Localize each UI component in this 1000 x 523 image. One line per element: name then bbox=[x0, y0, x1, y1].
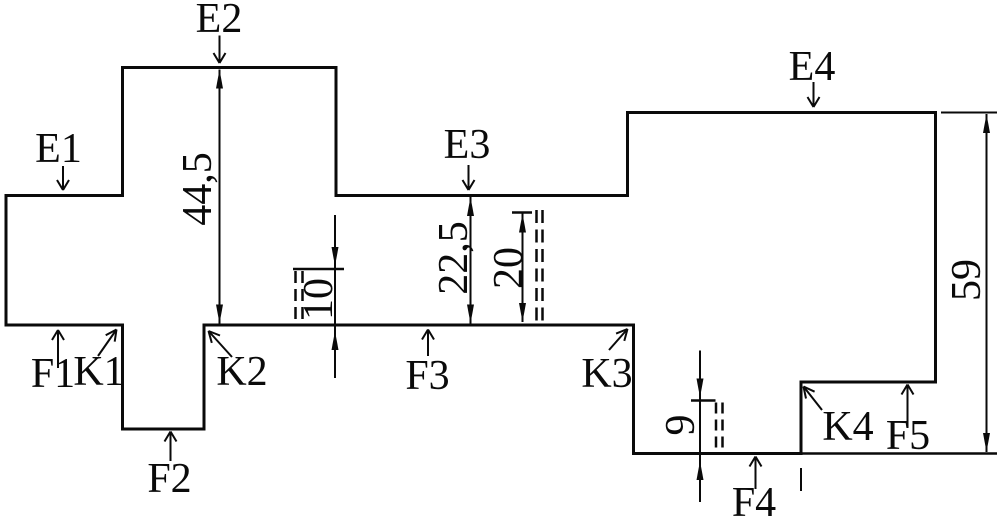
extension line bottom right bbox=[802, 452, 997, 455]
dashed reference lines 9 bbox=[716, 403, 723, 453]
dashed reference lines 10 bbox=[296, 271, 303, 324]
profile outline bbox=[6, 68, 936, 454]
dimension 22,5 bbox=[431, 197, 477, 324]
dimension 44,5 bbox=[175, 70, 223, 324]
svg-text:K2: K2 bbox=[216, 349, 267, 395]
label K3 bbox=[581, 329, 632, 397]
dimension 9 bbox=[658, 351, 716, 503]
extension line top right bbox=[941, 112, 997, 114]
label F1 bbox=[31, 330, 75, 397]
label F5 bbox=[886, 385, 930, 460]
label E3 bbox=[444, 122, 491, 190]
dimension 20 bbox=[486, 213, 532, 323]
label F3 bbox=[405, 330, 449, 400]
svg-text:F3: F3 bbox=[405, 353, 449, 399]
extension line below K4 bbox=[800, 468, 802, 491]
svg-text:K3: K3 bbox=[581, 351, 632, 397]
svg-text:59: 59 bbox=[944, 259, 990, 301]
label K2 bbox=[209, 331, 268, 395]
svg-text:F1: F1 bbox=[31, 351, 75, 397]
svg-text:22,5: 22,5 bbox=[431, 221, 477, 295]
dimension 10 bbox=[293, 215, 344, 378]
svg-text:K4: K4 bbox=[822, 404, 873, 450]
svg-text:E3: E3 bbox=[444, 122, 491, 168]
svg-text:20: 20 bbox=[486, 247, 532, 289]
label E2 bbox=[196, 0, 243, 63]
svg-text:E4: E4 bbox=[789, 44, 836, 90]
label F2 bbox=[147, 432, 191, 503]
svg-text:E1: E1 bbox=[35, 126, 82, 172]
label F4 bbox=[732, 457, 776, 523]
svg-text:9: 9 bbox=[658, 415, 704, 436]
label K4 bbox=[804, 387, 874, 451]
dimension 59 bbox=[944, 114, 990, 452]
dashed reference lines 20 bbox=[537, 210, 543, 324]
label E1 bbox=[35, 126, 82, 190]
svg-text:44,5: 44,5 bbox=[175, 152, 221, 226]
label K1 bbox=[73, 330, 124, 396]
label E4 bbox=[789, 44, 836, 107]
svg-text:F2: F2 bbox=[147, 456, 191, 502]
svg-text:F4: F4 bbox=[732, 480, 776, 523]
